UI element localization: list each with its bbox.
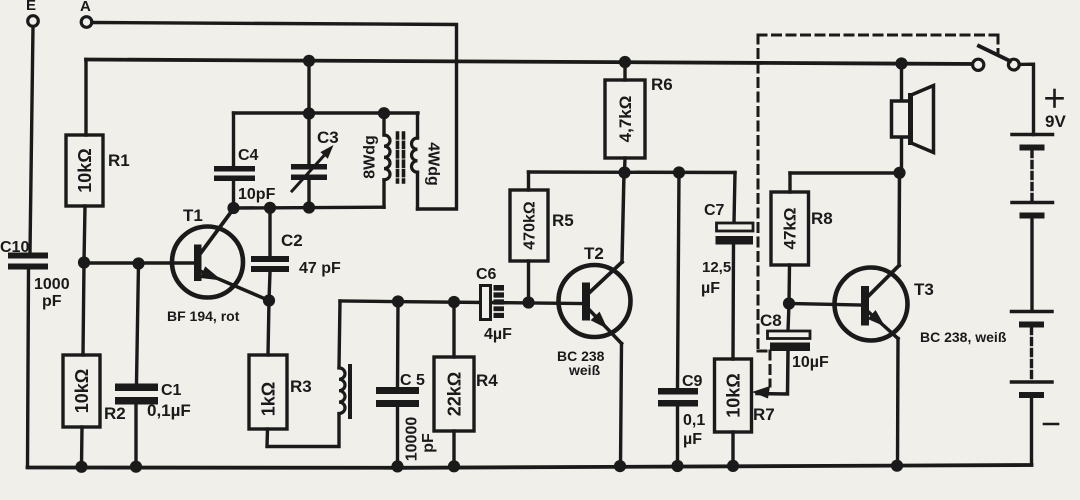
node C9 feed [673,166,685,178]
node R5 bottom [522,296,534,308]
wire rail corner down to R1 [84,60,87,136]
node T3 emitter ground [891,460,903,472]
resistor R4 [434,302,498,466]
svg-text:BC 238, weiß: BC 238, weiß [920,329,1007,345]
coil 8Wdg [362,107,391,207]
svg-text:µF: µF [683,431,702,448]
wire speaker to collector node [900,138,903,173]
node speaker collector junction [893,167,905,179]
svg-text:C8: C8 [760,311,782,330]
node C5 top [392,295,404,307]
svg-text:weiß: weiß [568,362,601,378]
svg-text:pF: pF [42,293,62,310]
svg-text:R5: R5 [552,211,574,230]
capacitor C10 [0,239,70,310]
wire T3 emitter to ground [896,339,900,467]
node R6 bottom [618,166,630,178]
svg-text:R4: R4 [476,371,498,390]
coil 4Wdg [411,113,441,209]
svg-text:9V: 9V [1045,112,1066,131]
speaker [892,86,934,153]
svg-text:E: E [26,0,36,14]
svg-text:47kΩ: 47kΩ [781,208,800,250]
node speaker rail tap [895,57,907,69]
svg-text:22kΩ: 22kΩ [445,372,465,416]
svg-text:T2: T2 [584,244,604,263]
svg-text:T3: T3 [914,280,934,299]
node rail tank feed [303,55,315,67]
wire T3 base [789,304,861,306]
svg-text:C3: C3 [317,128,339,147]
resistor R1 [66,135,130,206]
svg-text:µF: µF [701,280,720,297]
capacitor C8 electrolytic [760,304,829,372]
svg-text:10kΩ: 10kΩ [72,369,92,413]
svg-text:10kΩ: 10kΩ [724,373,744,417]
node C2 top [264,202,276,214]
wire switch to battery [1019,64,1033,134]
capacitor C6 electrolytic [476,266,512,343]
svg-text:47 pF: 47 pF [299,260,341,277]
node C1 ground [130,461,142,473]
svg-text:R3: R3 [290,377,312,396]
wire collector distribution line [529,170,736,174]
wire R1 to base node [84,206,85,263]
svg-text:10µF: 10µF [792,354,829,371]
svg-text:R8: R8 [811,209,833,228]
wire R8 top to collector node [790,171,899,174]
wire T2 emitter to ground [621,344,622,466]
svg-text:4Wdg: 4Wdg [425,142,442,186]
wire tank bottom line [233,205,384,209]
wire A to antenna coil [92,23,457,210]
dashed module boundary [758,35,998,386]
resistor R6 [605,56,673,173]
svg-text:C6: C6 [476,266,497,283]
wire R3 bottom to coil [267,414,339,447]
svg-text:pF: pF [420,433,437,453]
wire ground rail [28,465,1032,468]
svg-text:8Wdg: 8Wdg [362,135,379,179]
svg-text:C1: C1 [161,382,182,399]
wire C10 down to ground rail [28,270,29,467]
svg-text:0,1: 0,1 [683,412,705,429]
resistor R8 [771,173,833,304]
svg-text:A: A [80,0,91,15]
svg-text:C10: C10 [0,239,29,256]
node R4 ground [448,460,460,472]
capacitor C1 [115,382,191,420]
svg-text:R7: R7 [753,405,775,424]
transformer core [398,133,404,182]
resistor R5 [510,172,574,303]
coil L2 oscillator [339,301,350,417]
svg-text:R1: R1 [108,151,130,170]
transistor T3 [835,173,1007,345]
battery 9V [1012,90,1067,465]
node R7 ground [727,460,739,472]
node C3 bottom [303,201,315,213]
wire base node down to R2 [83,263,84,355]
svg-text:R6: R6 [651,75,673,94]
transistor T1 [167,206,269,324]
capacitor C9 [658,173,705,466]
svg-text:C2: C2 [281,231,303,250]
capacitor C5 [376,302,437,467]
capacitor C3 (trimmer) [291,114,339,208]
terminal E [26,0,38,26]
node R4 top [448,296,460,308]
svg-text:10pF: 10pF [238,186,276,203]
wire C1 to ground rail [134,405,137,467]
wire base to T1 [84,261,195,264]
svg-text:C4: C4 [238,147,259,164]
wire C8 to R7 wiper [757,351,788,394]
node C5 ground [391,460,403,472]
svg-text:470kΩ: 470kΩ [522,201,539,250]
wire rail feed to tank [307,61,310,114]
wire rail to speaker [900,64,903,102]
node base junction [78,256,90,268]
capacitor C7 electrolytic [701,173,753,360]
wire R2 to ground rail [80,427,84,466]
svg-text:4µF: 4µF [484,326,512,343]
node T3 base [783,297,795,309]
svg-text:10kΩ: 10kΩ [75,148,95,192]
wire tank top line [234,111,419,114]
svg-text:R2: R2 [104,404,126,423]
svg-text:1000: 1000 [34,276,70,293]
svg-text:12,5: 12,5 [702,259,731,276]
node C9 ground [671,460,683,472]
svg-text:1kΩ: 1kΩ [259,382,279,416]
terminal A [80,0,92,27]
capacitor C4 [214,113,276,208]
wire top supply rail [86,60,978,65]
svg-text:BF 194, rot: BF 194, rot [167,308,240,324]
svg-text:4,7kΩ: 4,7kΩ [616,96,635,143]
node C1 tap [132,257,144,269]
resistor R3 [249,355,312,429]
node collector/C4 [227,202,239,214]
wire down to C1 [137,264,139,384]
wire E down to C10 [30,27,33,253]
svg-text:C7: C7 [704,202,725,219]
switch S1 [973,46,1020,70]
svg-text:0,1µF: 0,1µF [147,401,191,420]
node emitter C2 junction [263,294,275,306]
transistor T2 [557,173,631,379]
svg-text:C 5: C 5 [400,372,425,389]
resistor R2 [63,355,126,427]
wire emitter down to R3 [268,301,269,356]
node T2 emitter ground [614,460,626,472]
svg-text:T1: T1 [183,206,203,225]
resistor R7 potentiometer [715,359,775,466]
svg-text:C9: C9 [682,373,703,390]
wire oscillator node to T2 base [340,301,582,304]
node tank top [303,107,315,119]
svg-text:10000: 10000 [404,417,421,462]
node R7 wiper arrow [752,386,770,399]
node R2 ground [75,461,87,473]
capacitor C2 [251,208,341,301]
